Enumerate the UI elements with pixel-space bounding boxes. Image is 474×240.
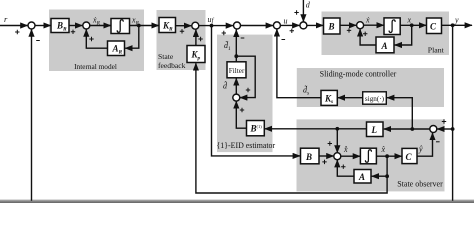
summing junction J8 [233,94,240,101]
wire sign to K_s [338,97,363,99]
svg-text:sign(·): sign(·) [365,95,385,103]
wire disturbance d [302,0,304,22]
wire observer B to J9 [319,155,334,157]
svg-text:Internal model: Internal model [74,62,117,71]
block plant B [324,18,341,34]
wire J1 to Br [35,25,51,27]
wire K_R to J3 [176,25,192,27]
node on y line [451,23,455,27]
wire x node to plant A [395,25,412,45]
wire K_p to J3 [195,30,197,46]
wire plant integrator to C [400,24,426,26]
svg-text:Filter: Filter [229,67,245,75]
svg-text:x: x [407,16,412,25]
wire K_s to J5 [277,29,321,98]
block A_R [108,41,125,56]
node on y feedback at error junction level [451,127,455,131]
wire Filter to J4 [235,30,237,62]
wire node down to J9 [336,129,338,153]
wire J9 to observer integrator [341,155,360,157]
summing junction J3 [192,22,199,29]
wire C to output [442,24,473,26]
svg-text:L: L [371,125,378,135]
block B1 inverse [247,121,265,136]
wire J7 to plant integrator [364,24,384,26]
svg-text:u: u [284,17,288,26]
internal model box [49,10,144,72]
wire observer A to J9 [337,160,354,176]
wire J5 to J6 with u label [281,24,300,26]
wire J3 to J4 [199,25,233,27]
svg-text:y: y [454,16,459,25]
summing junction J5 [273,22,280,29]
block observer A [354,170,371,184]
wire J6 to plant B [307,24,323,26]
wire r input [0,25,28,27]
summing junction J9 [334,153,341,160]
wire u_f to observer B [212,26,301,156]
state observer box [297,119,445,191]
wire plant A to J7 [360,29,376,45]
wire node to A_R [125,26,139,49]
summing junction J7 [357,22,364,29]
svg-text:B: B [328,22,335,32]
block K_s [321,90,337,105]
block L [367,122,384,137]
wire Br to J2 [69,25,82,27]
block observer B [301,148,320,164]
block plant A [376,37,394,53]
svg-text:A: A [381,41,388,51]
wire A_R to J2 [86,29,107,48]
summing junction J2 [83,22,90,29]
svg-text:A: A [358,172,365,182]
node on xhat line [385,154,389,158]
state feedback box [157,10,206,70]
svg-text:feedback: feedback [158,61,186,70]
block B_R [51,19,69,33]
svg-text:x̂̇: x̂̇ [343,145,348,154]
EID estimator box [217,35,273,153]
block integrator internal model [111,19,130,34]
svg-text:State: State [158,52,174,61]
block K_R [159,18,176,33]
plant box [322,12,450,56]
wire filter output loop to J8 [236,56,255,97]
svg-text:Plant: Plant [428,46,445,55]
summing junction J6 [300,22,307,29]
node u_f [210,24,214,28]
svg-text:Sliding-mode controller: Sliding-mode controller [320,70,397,79]
summing junction J4 [234,22,241,29]
node on filter output [234,54,238,58]
svg-text:{1}-EID estimator: {1}-EID estimator [217,141,276,150]
node on x_R line [137,24,141,28]
block plant integrator [384,18,400,35]
sliding-mode controller box [297,68,444,107]
block observer integrator [360,148,376,164]
wire J8 to Filter [235,78,237,94]
wire y feedback down and along bottom to J1 [452,25,454,201]
node on x line [410,23,414,27]
block plant C [427,18,442,34]
node on J10-L wire [410,127,414,131]
summing junction J10 [430,126,437,133]
wire B1 to J8 [236,101,246,128]
svg-text:ẋ: ẋ [365,16,370,25]
node on L output [335,127,339,131]
wire to observer A [372,175,388,177]
block sign [363,92,387,104]
block K_p [187,46,205,63]
wire observer C to J10 [417,133,433,156]
summing junction J1 [28,22,35,29]
svg-text:C: C [406,152,413,162]
node on xhat vertical at A level [385,174,389,178]
block observer C [402,148,417,163]
wire plant B to J7 [340,24,356,26]
wire observer integrator to C [376,155,401,157]
svg-text:x̂: x̂ [381,145,386,154]
wire integrator to Kr [130,25,159,27]
wire node up to sign block [387,98,412,129]
svg-text:C: C [430,22,437,32]
wire J2 to integrator [90,25,111,27]
wire J10 to L [384,128,430,130]
wire L to B1 [265,128,367,130]
svg-text:ŷ: ŷ [418,145,423,154]
svg-text:B: B [305,152,312,162]
wire y to error junction J10 [437,128,452,130]
svg-text:State observer: State observer [397,179,443,188]
block Filter [227,62,246,78]
wire J4 to J5 [241,25,273,27]
wire xhat down to A and K_p [196,63,387,193]
bottom edge band [0,200,474,204]
